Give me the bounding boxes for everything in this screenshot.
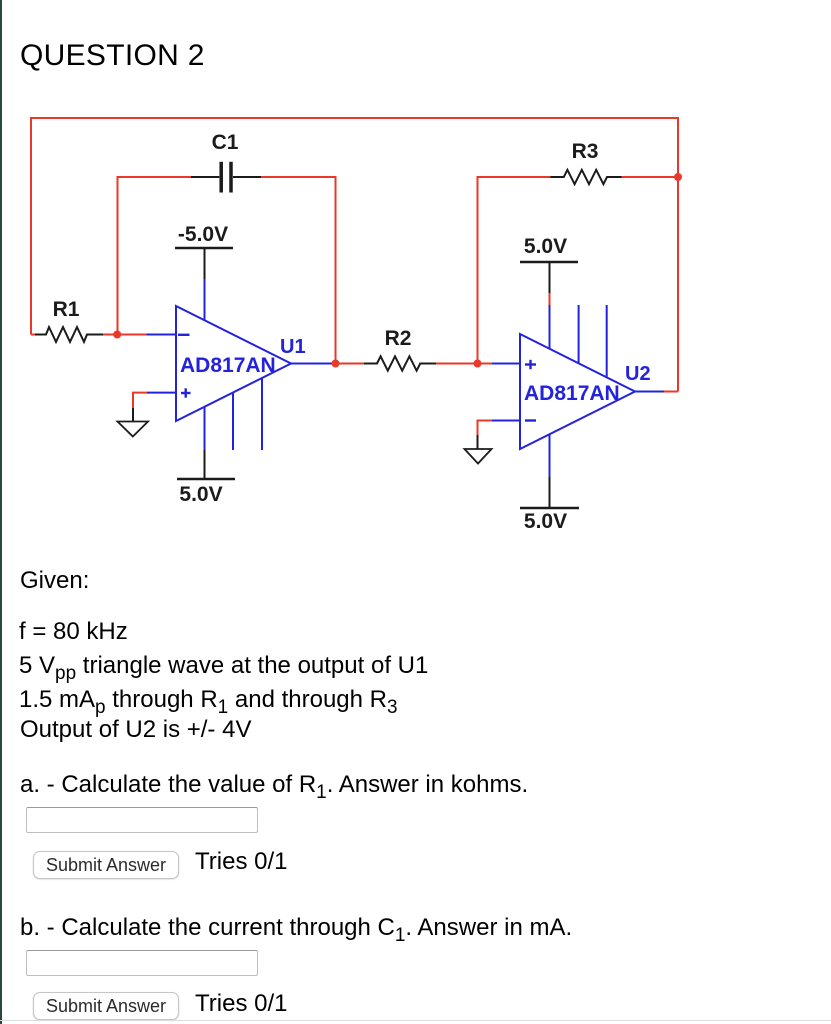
svg-text:5.0V: 5.0V <box>524 510 567 533</box>
svg-text:5.0V: 5.0V <box>524 235 567 258</box>
svg-text:U1: U1 <box>280 336 306 358</box>
svg-text:AD817AN: AD817AN <box>524 382 620 405</box>
svg-text:R3: R3 <box>572 140 599 163</box>
svg-text:U2: U2 <box>625 363 651 385</box>
svg-text:C1: C1 <box>212 131 239 154</box>
svg-text:AD817AN: AD817AN <box>180 354 276 377</box>
svg-text:R1: R1 <box>53 298 80 321</box>
svg-text:R2: R2 <box>385 327 412 350</box>
svg-text:-5.0V: -5.0V <box>178 223 228 246</box>
svg-text:5.0V: 5.0V <box>179 483 222 506</box>
